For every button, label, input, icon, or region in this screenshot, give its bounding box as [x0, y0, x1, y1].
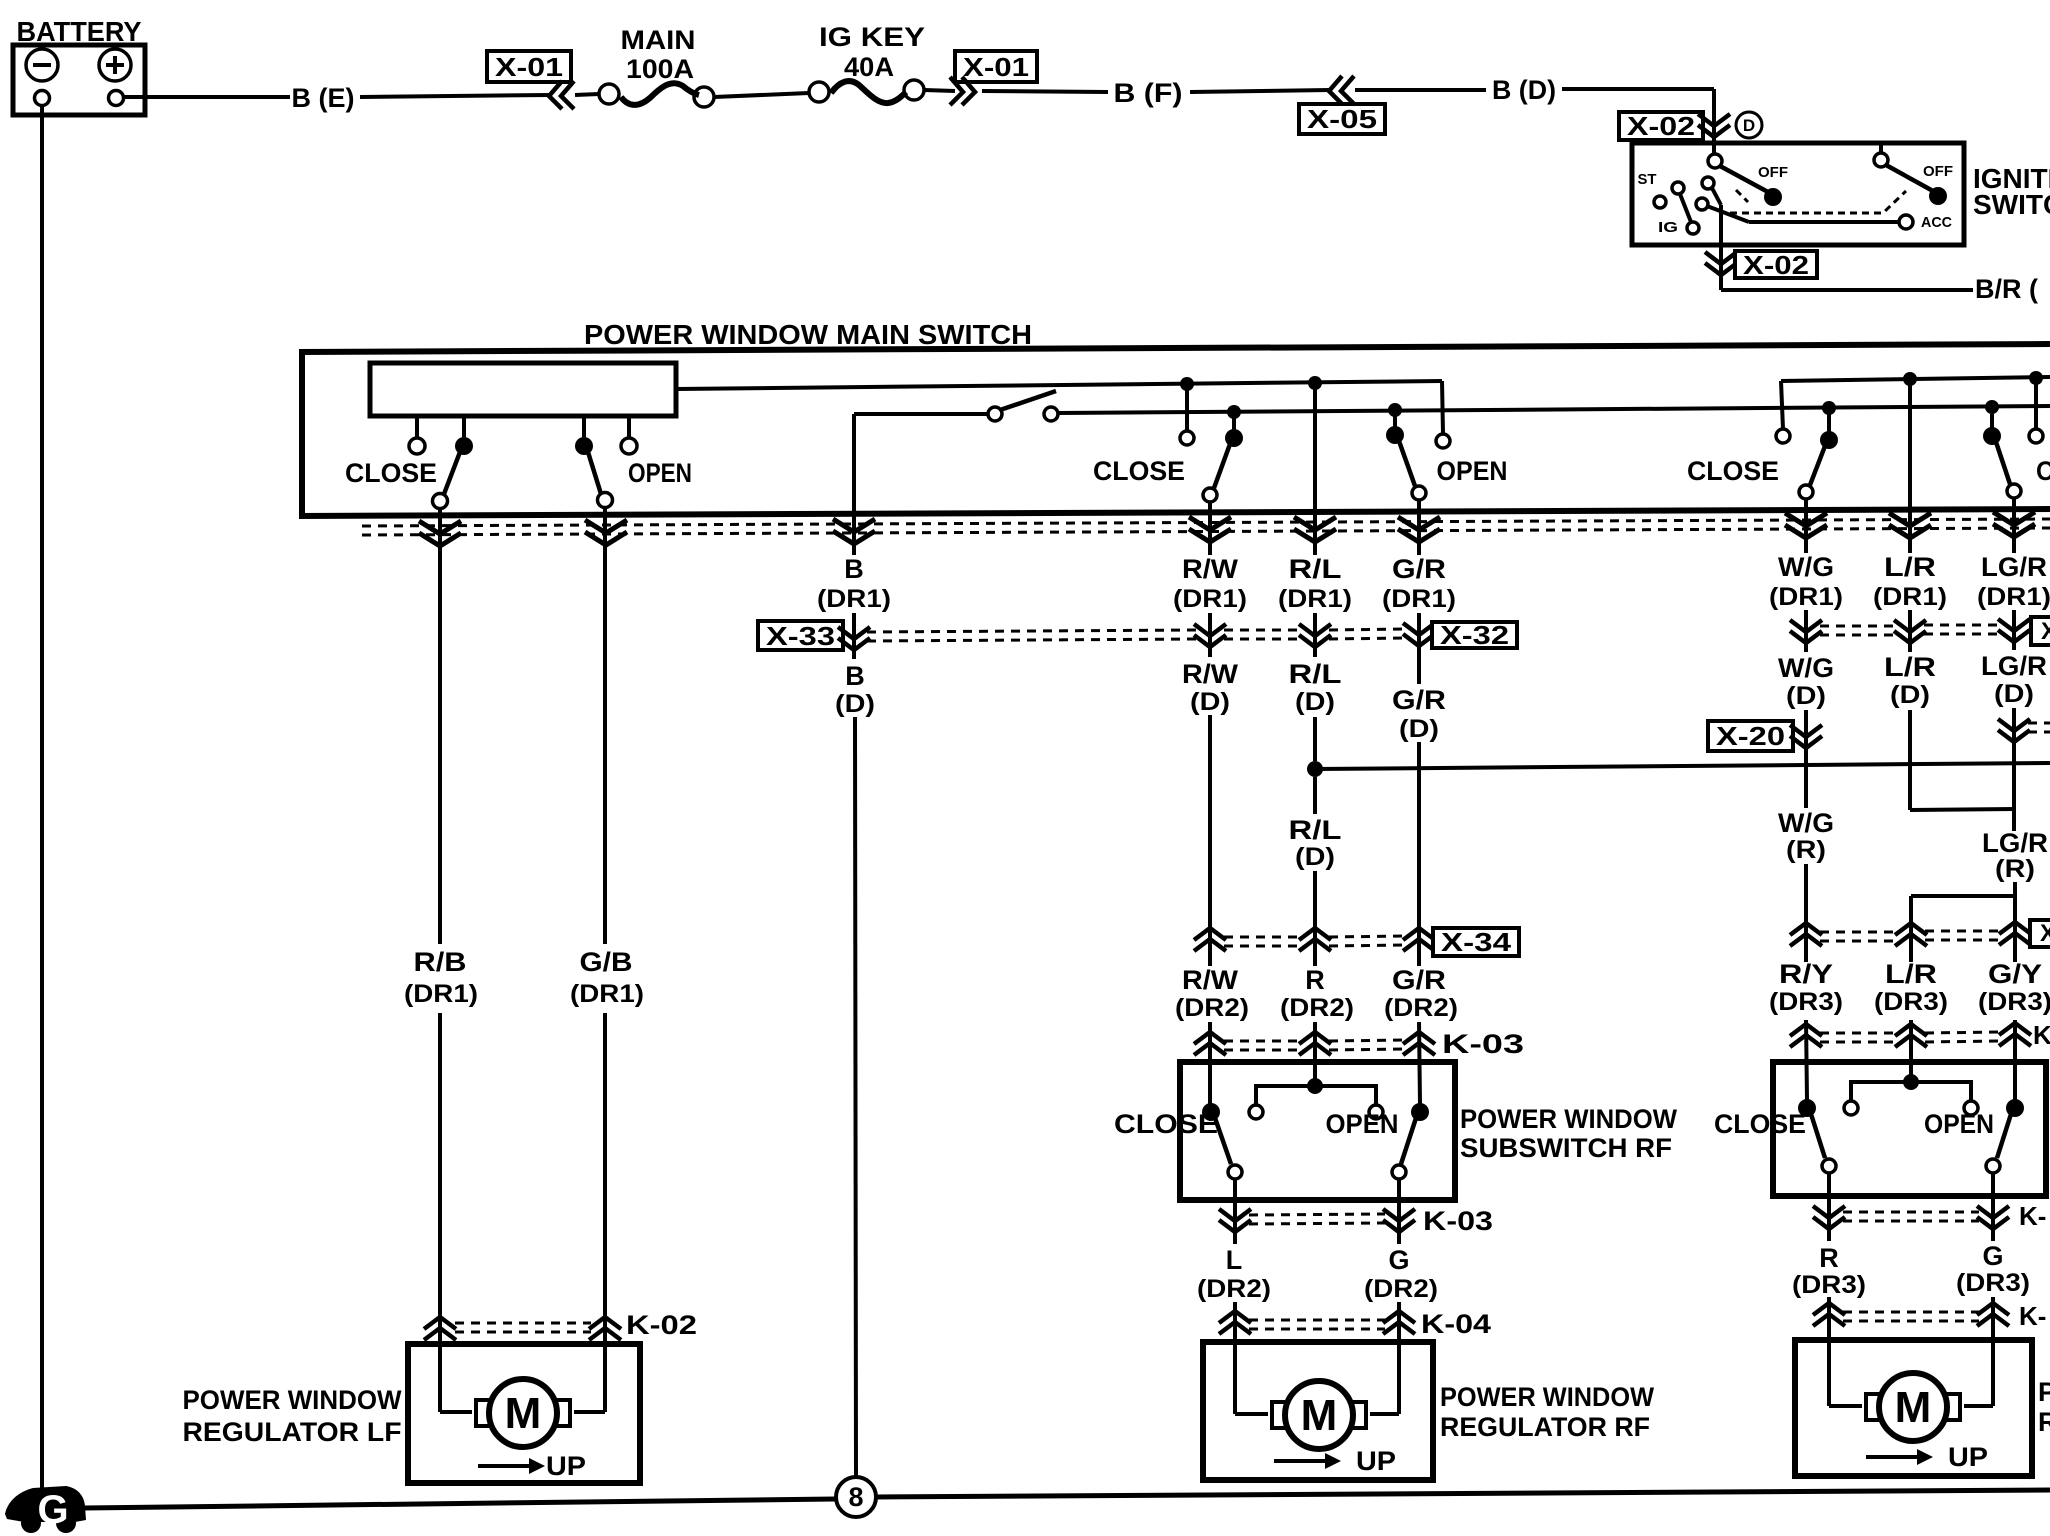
svg-text:REGULATOR RF: REGULATOR RF: [1440, 1412, 1650, 1442]
svg-text:IG: IG: [1658, 219, 1678, 236]
svg-text:G/R: G/R: [1392, 554, 1446, 584]
svg-text:(DR1): (DR1): [570, 980, 644, 1008]
svg-text:R/W: R/W: [1182, 659, 1239, 689]
svg-text:X: X: [2040, 920, 2050, 947]
svg-text:R/L: R/L: [1289, 554, 1342, 584]
svg-text:POWER WINDOW: POWER WINDOW: [2038, 1377, 2050, 1407]
svg-text:G/B: G/B: [580, 947, 633, 977]
svg-text:(DR2): (DR2): [1197, 1275, 1271, 1303]
svg-text:(D): (D): [1295, 688, 1335, 716]
svg-text:M: M: [505, 1389, 542, 1438]
svg-text:40A: 40A: [844, 52, 894, 82]
svg-text:(DR2): (DR2): [1364, 1275, 1438, 1303]
svg-text:R: R: [1305, 965, 1325, 995]
svg-text:(DR3): (DR3): [1956, 1269, 2030, 1297]
svg-text:SWITCH: SWITCH: [1973, 189, 2050, 220]
svg-text:B: B: [844, 554, 864, 584]
svg-text:B (D): B (D): [1492, 75, 1556, 105]
svg-text:(DR1): (DR1): [1173, 585, 1247, 613]
svg-text:R: R: [1819, 1243, 1839, 1273]
svg-text:BATTERY: BATTERY: [17, 16, 142, 47]
svg-text:CLOSE: CLOSE: [1714, 1109, 1806, 1139]
svg-text:LG/R: LG/R: [1982, 828, 2048, 858]
svg-text:(DR1): (DR1): [1769, 583, 1843, 611]
svg-text:UP: UP: [1356, 1446, 1396, 1476]
svg-text:R/Y: R/Y: [1779, 959, 1833, 989]
svg-text:G/R: G/R: [1392, 685, 1446, 715]
svg-text:(DR3): (DR3): [1769, 988, 1843, 1016]
svg-text:G/Y: G/Y: [1988, 959, 2042, 989]
svg-text:M: M: [1895, 1383, 1932, 1432]
svg-text:K-03: K-03: [1442, 1029, 1524, 1059]
svg-text:(D): (D): [1786, 682, 1826, 710]
svg-text:X-01: X-01: [963, 52, 1029, 82]
svg-text:G/R: G/R: [1392, 965, 1446, 995]
svg-text:K-04: K-04: [1421, 1309, 1491, 1339]
svg-text:LG/R: LG/R: [1981, 651, 2047, 681]
svg-text:POWER WINDOW MAIN SWITCH: POWER WINDOW MAIN SWITCH: [584, 319, 1032, 350]
svg-text:(D): (D): [1295, 843, 1335, 871]
svg-text:OPEN: OPEN: [1924, 1109, 1994, 1139]
svg-text:ACC: ACC: [1921, 214, 1952, 231]
svg-text:(D): (D): [1890, 681, 1930, 709]
svg-text:(D): (D): [1190, 688, 1230, 716]
svg-text:W/G: W/G: [1778, 808, 1834, 838]
svg-text:(DR1): (DR1): [1873, 583, 1947, 611]
svg-text:R/W: R/W: [1182, 554, 1239, 584]
svg-text:(D): (D): [1994, 680, 2034, 708]
svg-text:R/L: R/L: [1289, 659, 1342, 689]
svg-text:100A: 100A: [626, 54, 694, 84]
svg-text:M: M: [1301, 1391, 1338, 1440]
svg-text:OFF: OFF: [1758, 164, 1788, 181]
svg-text:OFF: OFF: [1923, 163, 1953, 180]
svg-text:POWER WINDOW: POWER WINDOW: [1460, 1104, 1677, 1134]
svg-text:OPEN: OPEN: [628, 458, 692, 488]
svg-text:POWER WINDOW: POWER WINDOW: [1440, 1382, 1654, 1412]
svg-text:L/R: L/R: [1884, 652, 1936, 682]
svg-text:D: D: [1743, 116, 1755, 135]
svg-text:X-32: X-32: [1440, 620, 1509, 650]
svg-text:R/L: R/L: [1289, 815, 1342, 845]
svg-text:X-34: X-34: [1441, 927, 1512, 957]
svg-text:8: 8: [848, 1482, 863, 1512]
svg-text:(DR1): (DR1): [404, 980, 478, 1008]
svg-text:X-05: X-05: [1307, 104, 1377, 134]
svg-text:L/R: L/R: [1884, 552, 1936, 582]
svg-text:(DR3): (DR3): [1792, 1271, 1866, 1299]
svg-text:K-: K-: [2033, 1020, 2050, 1050]
svg-text:UP: UP: [546, 1451, 586, 1481]
svg-text:G: G: [1982, 1241, 2003, 1271]
svg-text:B (E): B (E): [292, 83, 355, 113]
svg-text:(DR2): (DR2): [1175, 994, 1249, 1022]
svg-text:IG KEY: IG KEY: [819, 22, 925, 52]
svg-text:K-03: K-03: [1423, 1206, 1493, 1236]
svg-text:X-02: X-02: [1743, 250, 1809, 280]
svg-text:K-: K-: [2019, 1301, 2046, 1331]
svg-text:(DR3): (DR3): [1874, 988, 1948, 1016]
svg-text:UP: UP: [1948, 1442, 1988, 1472]
svg-text:X-02: X-02: [1627, 111, 1695, 141]
svg-text:REGULATOR RR: REGULATOR RR: [2038, 1407, 2050, 1437]
svg-text:(R): (R): [1995, 855, 2035, 883]
svg-text:(DR3): (DR3): [1978, 988, 2050, 1016]
svg-text:(DR2): (DR2): [1280, 994, 1354, 1022]
svg-text:ST: ST: [1638, 171, 1657, 188]
svg-text:(R): (R): [1786, 836, 1826, 864]
svg-text:R/W: R/W: [1182, 965, 1239, 995]
svg-text:(D): (D): [1399, 715, 1439, 743]
svg-text:POWER WINDOW: POWER WINDOW: [183, 1385, 402, 1415]
svg-text:R/B: R/B: [414, 947, 467, 977]
svg-text:(D): (D): [835, 690, 875, 718]
svg-text:(DR1): (DR1): [817, 585, 891, 613]
svg-text:X-01: X-01: [495, 52, 563, 82]
svg-text:LG/R: LG/R: [1981, 552, 2047, 582]
svg-text:L/R: L/R: [1885, 959, 1937, 989]
svg-text:W/G: W/G: [1778, 552, 1834, 582]
svg-text:CLOSE: CLOSE: [1687, 456, 1779, 486]
svg-text:X: X: [2041, 618, 2050, 645]
svg-text:(DR1): (DR1): [1977, 583, 2050, 611]
svg-text:(DR1): (DR1): [1278, 585, 1352, 613]
svg-text:X-20: X-20: [1716, 721, 1785, 751]
svg-text:REGULATOR LF: REGULATOR LF: [183, 1417, 402, 1447]
svg-text:G: G: [1388, 1245, 1409, 1275]
svg-text:G: G: [37, 1488, 68, 1532]
svg-text:OPEN: OPEN: [2036, 456, 2050, 486]
svg-text:L: L: [1226, 1245, 1243, 1275]
svg-text:MAIN: MAIN: [621, 25, 696, 55]
svg-text:B (F): B (F): [1114, 78, 1183, 108]
svg-text:B: B: [845, 661, 865, 691]
svg-text:K-02: K-02: [626, 1310, 697, 1340]
svg-text:B/R (: B/R (: [1975, 274, 2038, 304]
svg-text:CLOSE: CLOSE: [1114, 1109, 1218, 1139]
svg-text:(DR2): (DR2): [1384, 994, 1458, 1022]
svg-text:CLOSE: CLOSE: [345, 458, 437, 488]
svg-text:CLOSE: CLOSE: [1093, 456, 1185, 486]
svg-text:W/G: W/G: [1778, 653, 1834, 683]
svg-text:X-33: X-33: [766, 621, 835, 651]
svg-text:OPEN: OPEN: [1326, 1109, 1399, 1139]
svg-text:OPEN: OPEN: [1437, 456, 1508, 486]
svg-text:SUBSWITCH RF: SUBSWITCH RF: [1460, 1133, 1672, 1163]
svg-text:(DR1): (DR1): [1382, 585, 1456, 613]
svg-text:K-: K-: [2019, 1201, 2046, 1231]
